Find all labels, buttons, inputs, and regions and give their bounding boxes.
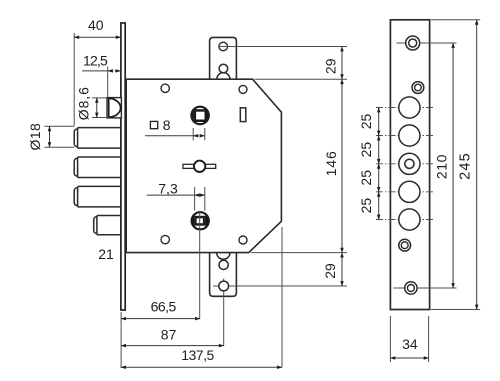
svg-text:210: 210 <box>434 154 450 179</box>
svg-text:25: 25 <box>358 170 374 186</box>
deadbolt 1 <box>74 128 121 149</box>
svg-text:137,5: 137,5 <box>181 347 214 363</box>
dim Ø18: extension lines <box>45 126 75 147</box>
dim text 25 #2 (vertical) <box>358 142 374 158</box>
svg-text:25: 25 <box>358 198 374 214</box>
keyhole (double-bit key slot) <box>183 161 216 172</box>
dim text 12,5 <box>83 52 108 68</box>
bottom mounting tab <box>210 252 237 296</box>
dim text 40 <box>88 17 104 33</box>
dim text 34 <box>402 336 418 352</box>
bottom tab countersink bulb <box>217 253 230 270</box>
dim text 146 (vertical) <box>323 150 339 176</box>
plate hole H5 (middle, with inner ring) with center line <box>376 153 433 174</box>
dim 29 bottom: extension lines <box>251 252 347 254</box>
dim 66,5: extension line left <box>120 312 122 368</box>
svg-text:21: 21 <box>98 246 114 262</box>
dim 210: dimension line <box>452 43 454 288</box>
dim 29 top: extension lines <box>219 47 347 80</box>
svg-text:66,5: 66,5 <box>151 298 177 314</box>
plate hole H2 (offset ring) <box>412 82 424 94</box>
small rectangular slot <box>240 108 246 122</box>
dim square 8: dimension line with leader <box>145 135 205 137</box>
dim 29 top: dimension line <box>341 47 343 80</box>
dim text 29 bottom (vertical) <box>322 263 338 279</box>
dim 29 bottom: dimension line <box>341 253 343 286</box>
dim 137,5: extension line right <box>281 227 283 367</box>
svg-text:25: 25 <box>358 142 374 158</box>
dim 34: dimension line <box>390 357 428 359</box>
dim Ø18: dimension line <box>49 126 51 147</box>
upper spindle hole (square in circle) <box>191 105 209 127</box>
latch bolt <box>107 98 121 118</box>
dim text square 8 <box>150 117 170 133</box>
auxiliary bolt <box>94 216 121 235</box>
svg-text:Ø8,6: Ø8,6 <box>75 86 91 120</box>
dim text 7,3 <box>158 181 178 197</box>
dim text 25 #3 (vertical) <box>358 170 374 186</box>
center line below lower spindle <box>199 212 201 319</box>
dim 40: dimension line <box>74 36 121 38</box>
plate hole H6 (bolt hole) with center line <box>376 181 433 202</box>
svg-text:245: 245 <box>457 152 473 180</box>
svg-text:29: 29 <box>322 263 338 279</box>
dim 7,3: dimension line with leader <box>147 194 205 196</box>
svg-text:87: 87 <box>161 327 177 343</box>
dim Ø8,6: dimension line <box>96 98 98 118</box>
dim 34: extension lines <box>390 316 428 362</box>
plate hole H3 (bolt hole) with center line <box>376 97 433 118</box>
top mounting tab <box>210 37 237 79</box>
plate hole H7 (bolt hole) with center line <box>376 209 433 230</box>
dim 146: dimension line <box>341 79 343 252</box>
dim 210: extension lines <box>417 43 456 288</box>
dim 87: dimension line <box>121 345 224 347</box>
plate hole H4 (bolt hole) with center line <box>376 125 433 146</box>
svg-text:146: 146 <box>323 150 339 176</box>
dim text 29 top (vertical) <box>323 58 339 74</box>
plate hole H1 (top screw hole) with center line <box>397 36 457 50</box>
body screw hole top-right <box>239 85 247 93</box>
body screw hole bottom-right <box>239 236 247 244</box>
dim 66,5: dimension line <box>121 318 200 320</box>
dim text 87 <box>161 327 177 343</box>
dim text Ø8,6 (vertical) <box>75 86 91 120</box>
svg-text:29: 29 <box>323 58 339 74</box>
dim 12,5: dimension line with leader <box>82 70 120 72</box>
body screw hole top-left <box>161 84 169 92</box>
dim 7,3: extension lines <box>195 187 205 211</box>
dim Ø8,6: extension lines <box>92 98 107 118</box>
svg-text:Ø18: Ø18 <box>27 123 43 151</box>
top tab countersink bulb <box>217 64 230 79</box>
dim 40: extension line <box>73 33 75 126</box>
dim text 137,5 <box>181 347 214 363</box>
deadbolt 2 <box>74 157 121 178</box>
deadbolt 3 <box>74 186 121 207</box>
faceplate strip (side view) <box>121 23 125 310</box>
lock body outline <box>126 79 281 252</box>
dim text 210 (vertical) <box>434 154 450 179</box>
strike plate (front view) <box>390 20 429 310</box>
svg-text:12,5: 12,5 <box>83 52 108 68</box>
dim square 8: extension lines <box>193 128 205 140</box>
plate hole H9 (bottom screw hole) with center line <box>394 282 457 294</box>
lower spindle hole (square in circle) <box>192 210 209 231</box>
svg-text:7,3: 7,3 <box>158 181 178 197</box>
svg-text:25: 25 <box>358 114 374 130</box>
dim text 25 #4 (vertical) <box>358 198 374 214</box>
dim 137,5: dimension line <box>121 366 282 368</box>
dim 12,5: extension line <box>107 67 109 98</box>
dim 25 chain: dimension line with ticks <box>378 108 380 220</box>
dim text 21 <box>98 246 114 262</box>
top tab hole <box>219 42 228 51</box>
plate hole H8 (offset ring) <box>399 239 411 251</box>
dim text 66,5 <box>151 298 177 314</box>
dim text 25 #1 (vertical) <box>358 114 374 130</box>
dim 245: dimension line <box>476 20 478 310</box>
svg-text:40: 40 <box>88 17 104 33</box>
svg-text:8: 8 <box>163 117 171 133</box>
dim text 245 (vertical) <box>457 152 473 180</box>
dim 245: extension lines <box>431 20 480 310</box>
dim text Ø18 (vertical) <box>27 123 43 151</box>
bottom tab hole with center cross <box>213 279 347 346</box>
svg-text:34: 34 <box>402 336 418 352</box>
body screw hole bottom-left <box>161 235 169 243</box>
